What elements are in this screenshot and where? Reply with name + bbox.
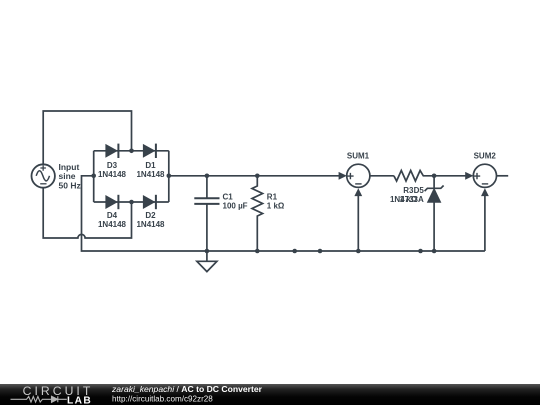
node C1 bottom / ground xyxy=(205,249,210,254)
svg-text:1 kΩ: 1 kΩ xyxy=(267,202,285,211)
svg-text:D2: D2 xyxy=(145,211,156,220)
label V1 "Input sine 50 Hz" xyxy=(59,162,81,190)
node D5 bottom xyxy=(432,249,437,254)
label D2 xyxy=(136,211,165,229)
diode D2 xyxy=(143,195,156,209)
label D1 xyxy=(136,161,165,179)
diode D4 xyxy=(106,195,119,209)
label D4 xyxy=(98,211,127,229)
svg-text:zaraki_kenpachi / AC to DC Con: zaraki_kenpachi / AC to DC Converter xyxy=(111,384,263,394)
svg-text:SUM2: SUM2 xyxy=(474,152,497,161)
svg-text:1N4148: 1N4148 xyxy=(98,170,127,179)
svg-text:1N4148: 1N4148 xyxy=(136,170,165,179)
svg-text:D1: D1 xyxy=(145,161,156,170)
node R1 top xyxy=(255,174,260,179)
node bridge top junction xyxy=(129,149,134,154)
label D5 xyxy=(390,186,424,204)
voltage source V1 xyxy=(32,164,55,187)
svg-text:R3: R3 xyxy=(403,186,414,195)
summer SUM2 xyxy=(473,164,496,187)
svg-text:50 Hz: 50 Hz xyxy=(59,180,81,190)
footer bar xyxy=(0,384,540,405)
svg-text:1N4148: 1N4148 xyxy=(98,220,127,229)
svg-text:http://circuitlab.com/c92zr28: http://circuitlab.com/c92zr28 xyxy=(112,395,213,404)
svg-text:SUM1: SUM1 xyxy=(347,152,370,161)
zener diode D5 xyxy=(425,176,444,251)
arrow into SUM1 xyxy=(339,172,347,180)
wire bridge left vertical xyxy=(93,151,95,202)
svg-text:C1: C1 xyxy=(223,193,234,202)
wire SUM1 reference from bottom rail xyxy=(357,196,359,251)
wire mid rail from bridge to SUM1 xyxy=(169,175,339,177)
logo resistor-diode drawing xyxy=(11,396,67,402)
label C1 xyxy=(223,193,248,211)
node rail junction 1 xyxy=(292,249,297,254)
label R1 xyxy=(267,193,285,211)
summer SUM1 xyxy=(347,164,370,187)
wire bridge left mid tap to bottom rail xyxy=(82,176,485,251)
wire SUM2 right stub xyxy=(497,175,509,177)
svg-text:100 µF: 100 µF xyxy=(223,202,248,211)
node SUM1 reference xyxy=(356,249,361,254)
node bridge bottom junction xyxy=(129,200,134,205)
label R3 xyxy=(400,186,418,204)
svg-text:LAB: LAB xyxy=(67,396,92,405)
diode D1 xyxy=(143,144,156,158)
arrow into SUM2 xyxy=(465,172,473,180)
diode D3 xyxy=(106,144,119,158)
node A after R3 xyxy=(432,174,437,179)
svg-text:1N4733A: 1N4733A xyxy=(390,195,424,204)
node bridge left mid xyxy=(91,174,96,179)
svg-text:D5: D5 xyxy=(414,186,425,195)
node rail junction 3 xyxy=(418,249,423,254)
wire SUM1 to R3 to node A xyxy=(370,175,394,177)
svg-text:D4: D4 xyxy=(107,211,118,220)
wire SUM2 reference from bottom rail xyxy=(484,196,486,251)
arrow SUM1 reference xyxy=(354,188,362,196)
svg-text:1N4148: 1N4148 xyxy=(136,220,165,229)
resistor R3 xyxy=(394,171,434,182)
capacitor C1 xyxy=(194,176,219,261)
resistor R1 xyxy=(252,176,263,251)
label D3 xyxy=(98,161,127,179)
wire V1 minus down and right to bridge bottom node (with hop) xyxy=(43,188,131,238)
wire bridge top row xyxy=(94,150,169,152)
svg-text:D3: D3 xyxy=(107,161,118,170)
wire bridge right vertical xyxy=(168,151,170,202)
wire bridge bottom row xyxy=(94,201,169,203)
node bridge right mid xyxy=(167,174,172,179)
node rail junction 2 xyxy=(318,249,323,254)
svg-text:R1: R1 xyxy=(267,193,278,202)
arrow SUM2 reference xyxy=(481,188,489,196)
ground xyxy=(197,261,217,271)
wire node A to SUM2 xyxy=(434,175,466,177)
node C1 top xyxy=(205,174,210,179)
wire top loop from V1 plus to bridge top node xyxy=(43,111,131,164)
node R1 bottom xyxy=(255,249,260,254)
